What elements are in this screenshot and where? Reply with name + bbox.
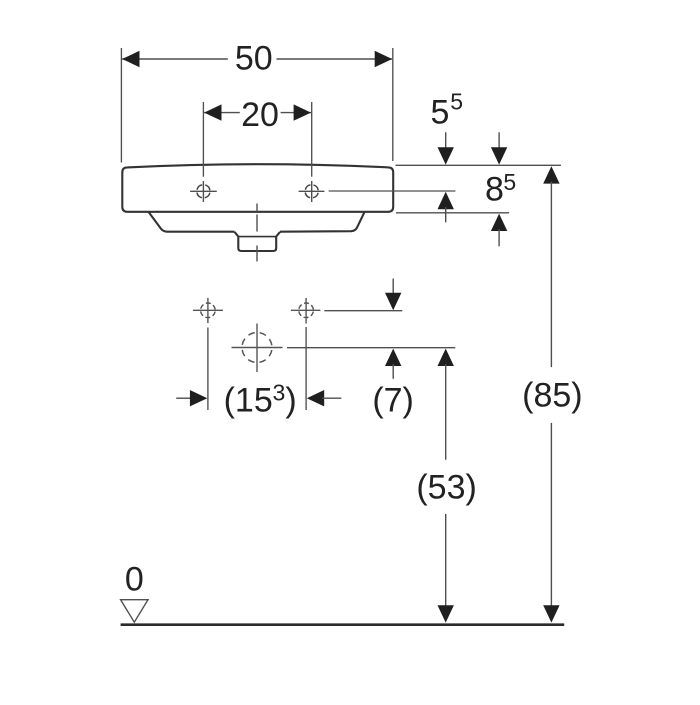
svg-text:20: 20: [241, 96, 279, 134]
dim (53) vertical line: [438, 349, 454, 366]
dimension 50: left extension line: [120, 48, 122, 163]
tap hole level leader line: [329, 190, 456, 192]
dim 8.5 lower arrow: [491, 214, 507, 231]
dim (7) upper arrow: [392, 279, 394, 296]
dimension 20 line: [204, 112, 240, 114]
plan: drain dashed circle: [242, 333, 272, 363]
svg-text:5: 5: [503, 169, 516, 195]
svg-text:50: 50: [235, 40, 273, 78]
plan: right extension line down: [305, 327, 307, 410]
dimension 50 line: [122, 58, 228, 60]
dim 8.5 upper arrow: [498, 132, 500, 150]
tap hole right cross: [299, 190, 325, 192]
floor baseline: [121, 623, 565, 626]
svg-text:8: 8: [485, 171, 504, 209]
drain centerline: [256, 204, 258, 262]
svg-text:3: 3: [273, 380, 286, 406]
plan: left fixing hole dashed circle: [201, 303, 216, 318]
dim 5.5 lower arrow: [438, 192, 454, 209]
svg-text:): ): [285, 382, 296, 420]
tap hole left circle: [197, 185, 210, 198]
svg-text:(85): (85): [522, 376, 582, 414]
drain outlet: [235, 232, 281, 251]
basin bowl right contour: [280, 212, 364, 231]
basin bottom level leader line: [396, 212, 509, 214]
plan: left extension line down: [207, 328, 209, 411]
plan: right fixing hole cross: [291, 309, 321, 311]
svg-text:5: 5: [431, 93, 450, 131]
tap hole left cross: [190, 190, 217, 192]
plan: drain cross: [232, 347, 283, 349]
dimension 20 right arrowhead: [294, 104, 311, 120]
drain inner edge: [239, 236, 276, 238]
tap hole right circle: [305, 185, 318, 198]
dimension 20: right extension line: [311, 102, 313, 177]
plan: right fixing hole dashed circle: [299, 303, 314, 318]
datum triangle: [121, 600, 148, 623]
dim (7) lower arrow: [385, 349, 401, 366]
svg-text:(15: (15: [224, 382, 273, 420]
svg-text:5: 5: [450, 89, 463, 115]
dimension 50: right extension line: [392, 48, 394, 161]
dim (85) vertical line: [543, 166, 559, 183]
plan: drain level leader line: [287, 347, 455, 349]
svg-text:(7): (7): [372, 382, 414, 420]
washbasin body outline (front view): [122, 164, 393, 212]
basin bowl left contour: [149, 212, 235, 232]
svg-text:0: 0: [125, 560, 144, 598]
dim 5.5 upper arrow: [445, 132, 447, 150]
top reference line (rim level): [396, 164, 561, 166]
dimension 50 right arrowhead: [375, 51, 392, 67]
svg-text:(53): (53): [416, 469, 476, 507]
dim (15_3) line left part with right-pointing arrowhead: [176, 397, 191, 399]
dim (15_3) line right part with left-pointing arrowhead: [307, 390, 324, 406]
dimension 50 left arrowhead: [122, 51, 139, 67]
dimension 20: left extension line: [202, 102, 204, 177]
plan: left fixing hole cross: [193, 309, 223, 311]
plan: fixing hole level leader line: [324, 310, 402, 312]
dimension 20 left arrowhead: [204, 104, 221, 120]
